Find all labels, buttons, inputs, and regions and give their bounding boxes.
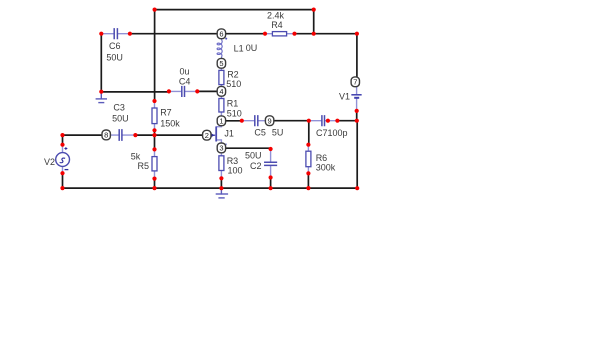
wire top rail xyxy=(155,9,314,11)
resistor R7 xyxy=(152,101,157,130)
capacitor C7 xyxy=(309,116,338,126)
wire left vertical bus x=154.6 xyxy=(154,10,156,101)
svg-text:C6: C6 xyxy=(109,41,121,51)
wire V2 bottom drop xyxy=(62,173,64,188)
node dot R3 bottom xyxy=(219,176,223,180)
wire bottom rail xyxy=(63,187,358,189)
svg-text:8: 8 xyxy=(104,131,108,140)
node dot top-right corner xyxy=(355,32,359,36)
wire C6 to node6 xyxy=(130,33,217,35)
wire R3 to bottom rail xyxy=(220,178,222,188)
node dot right bus mid xyxy=(355,119,359,123)
svg-text:C4: C4 xyxy=(179,76,191,86)
node 2 xyxy=(203,130,211,140)
svg-text:510: 510 xyxy=(227,109,242,119)
wire C4 to node4 xyxy=(197,90,217,92)
inductor L1 xyxy=(217,39,222,59)
node dot V1 bottom xyxy=(355,109,359,113)
wire node3 to C2 corner xyxy=(226,147,271,149)
node 8 xyxy=(102,130,110,140)
node dot C2 bottom xyxy=(269,175,273,179)
node dot top junction xyxy=(312,32,316,36)
svg-text:300k: 300k xyxy=(316,163,336,173)
svg-text:C7100p: C7100p xyxy=(316,128,348,138)
node dot R5 top xyxy=(152,147,156,151)
node dot C7 junction xyxy=(307,119,311,123)
node dot R3 rail xyxy=(219,186,223,190)
node dot C3 right xyxy=(133,133,137,137)
svg-text:9: 9 xyxy=(268,117,272,126)
node dot R6 rail xyxy=(306,186,310,190)
capacitor C3 xyxy=(110,130,135,140)
svg-text:R3: R3 xyxy=(227,156,239,166)
node dot C4 right xyxy=(195,89,199,93)
svg-text:2: 2 xyxy=(205,131,209,140)
svg-text:5U: 5U xyxy=(272,127,284,137)
svg-text:5: 5 xyxy=(219,59,223,68)
node dot C5 left xyxy=(240,119,244,123)
node 1 xyxy=(217,116,225,126)
wire C7 to right bus xyxy=(337,120,356,122)
resistor R5 xyxy=(152,149,157,178)
svg-text:50U: 50U xyxy=(245,151,262,161)
node dot bottom-right corner xyxy=(355,186,359,190)
wire node6 to R4 xyxy=(226,33,266,35)
resistor R6 xyxy=(306,145,311,174)
svg-text:R4: R4 xyxy=(271,20,283,30)
resistor R1 xyxy=(219,96,224,116)
node dot C4 left xyxy=(167,89,171,93)
svg-text:2.4k: 2.4k xyxy=(267,10,285,20)
capacitor C4 xyxy=(169,87,197,97)
svg-text:J1: J1 xyxy=(224,128,234,138)
node dot R6 top xyxy=(306,143,310,147)
wire top-right drop xyxy=(313,10,315,34)
svg-text:C5: C5 xyxy=(254,127,266,137)
svg-text:V1: V1 xyxy=(339,92,350,102)
node dot R4 right xyxy=(292,32,296,36)
svg-text:3: 3 xyxy=(219,144,223,153)
node dot R7 top xyxy=(152,99,156,103)
svg-text:R1: R1 xyxy=(227,99,239,109)
ground (below R3) xyxy=(216,188,227,198)
svg-text:150k: 150k xyxy=(160,118,180,128)
wire right vertical to bottom xyxy=(356,121,358,189)
node 7 xyxy=(351,77,359,87)
svg-text:R5: R5 xyxy=(138,161,150,171)
node dot R5 bottom xyxy=(152,177,156,181)
voltage source V2 (sine) xyxy=(56,145,70,174)
wire ground row to C4 xyxy=(101,91,169,93)
wire R7 to R5 junction xyxy=(154,130,156,149)
svg-text:R6: R6 xyxy=(316,153,328,163)
svg-text:C2: C2 xyxy=(250,161,262,171)
svg-text:1: 1 xyxy=(219,117,223,126)
node dot C6 right xyxy=(128,32,132,36)
voltage source V1 (battery) xyxy=(352,87,361,111)
svg-text:0U: 0U xyxy=(246,43,258,53)
node 9 xyxy=(265,116,273,126)
ground (top left) xyxy=(96,92,106,103)
wire C2 to bottom rail xyxy=(270,178,272,189)
node dot mid junction xyxy=(152,133,156,137)
wire C6 left drop xyxy=(100,34,102,92)
svg-text:4: 4 xyxy=(219,87,223,96)
node dot V2 corner xyxy=(60,133,64,137)
node dot R6 bottom xyxy=(306,171,310,175)
wire node9 to junction xyxy=(274,120,309,122)
node dot C7 right a xyxy=(326,119,330,123)
wire R5 to bottom rail xyxy=(154,179,156,189)
svg-text:50U: 50U xyxy=(106,52,123,62)
svg-text:C3: C3 xyxy=(113,103,125,113)
svg-text:L1: L1 xyxy=(234,43,244,53)
wire V2 top drop xyxy=(62,135,64,145)
wire R4 to right corner xyxy=(295,33,357,35)
node 6 xyxy=(217,29,225,39)
node dot C2 top xyxy=(269,147,273,151)
node 3 xyxy=(217,143,225,153)
capacitor C2 xyxy=(265,149,277,178)
node dot ground corner xyxy=(99,90,103,94)
node 4 xyxy=(217,86,225,96)
node dot top-right xyxy=(312,8,316,12)
node dot R7 bottom xyxy=(152,128,156,132)
svg-text:0u: 0u xyxy=(180,67,190,77)
node dot R4 left xyxy=(263,32,267,36)
wire right vertical to node7 xyxy=(356,34,358,77)
svg-text:7: 7 xyxy=(353,78,357,87)
svg-text:510: 510 xyxy=(226,79,241,89)
junction and terminal dots xyxy=(60,8,359,191)
capacitor C6 xyxy=(101,29,130,39)
svg-text:V2: V2 xyxy=(44,157,55,167)
resistor R3 xyxy=(219,153,224,179)
node dot C7 right b xyxy=(335,119,339,123)
wire V2 corner to node8 xyxy=(63,134,103,136)
transistor J1 xyxy=(211,125,227,145)
wire R6 to bottom rail xyxy=(307,173,309,188)
node 5 xyxy=(217,58,225,68)
svg-text:50U: 50U xyxy=(112,114,129,124)
resistor R2 xyxy=(219,68,224,86)
node dot C6 left xyxy=(99,32,103,36)
svg-text:100: 100 xyxy=(228,166,243,176)
wire C3 to node2 xyxy=(135,134,202,136)
node dot C2 rail xyxy=(269,186,273,190)
wire junction down to R6 xyxy=(308,121,310,145)
svg-text:R7: R7 xyxy=(160,108,172,118)
node dot top-left xyxy=(153,8,157,12)
wire node1 to C5 xyxy=(226,120,242,122)
node dot bottom-left corner xyxy=(60,186,64,190)
capacitor C5 xyxy=(242,116,266,126)
L1 pin mark xyxy=(225,38,227,40)
resistor R4 xyxy=(265,32,295,36)
node dot R5 rail xyxy=(152,186,156,190)
wire right vertical lower xyxy=(356,111,358,121)
svg-text:6: 6 xyxy=(219,30,223,39)
svg-text:5k: 5k xyxy=(131,151,141,161)
node dot V2 bottom xyxy=(60,171,64,175)
node dot V2 top xyxy=(60,143,64,147)
